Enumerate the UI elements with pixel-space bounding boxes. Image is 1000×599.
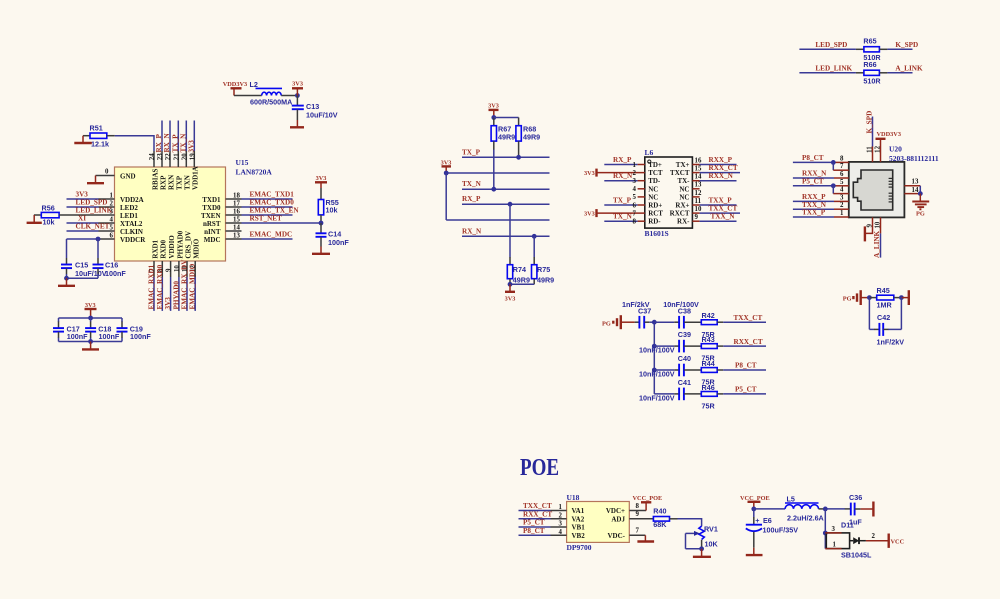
svg-text:CLK_NET: CLK_NET [76, 223, 110, 231]
wire L5 to C36 node [819, 507, 851, 512]
pin numbers 7-12 rotated [149, 265, 197, 272]
svg-text:LED_SPD: LED_SPD [76, 199, 108, 207]
svg-text:B1601S: B1601S [645, 229, 669, 238]
svg-text:7: 7 [636, 528, 640, 535]
svg-text:+: + [755, 516, 759, 525]
wire pin17 EMAC_TXD0 [226, 199, 295, 208]
svg-text:12: 12 [695, 190, 702, 197]
svg-text:PG: PG [602, 320, 611, 327]
svg-text:MDIO: MDIO [193, 238, 201, 258]
svg-text:LAN8720A: LAN8720A [236, 168, 273, 177]
svg-text:3: 3 [840, 194, 844, 201]
resistor R65 [799, 36, 912, 62]
svg-text:R66: R66 [863, 60, 876, 69]
wire pin13 EMAC_MDC [226, 231, 293, 240]
U20 pin 11 K_SPD [865, 111, 873, 162]
svg-text:RX+: RX+ [675, 202, 689, 210]
svg-text:12: 12 [875, 145, 882, 152]
svg-text:10: 10 [695, 206, 702, 213]
svg-text:XTAL2: XTAL2 [120, 220, 143, 228]
capacitor C36 1uF [849, 493, 862, 527]
U20 pin 8 P8_CT [793, 154, 849, 165]
svg-text:15: 15 [233, 217, 240, 224]
wire pin18 EMAC_TXD1 [226, 191, 295, 200]
wire R74/R75 bottom [508, 282, 535, 287]
svg-text:3V3: 3V3 [584, 170, 595, 177]
svg-text:nRST: nRST [203, 220, 221, 228]
svg-text:10uF/10V: 10uF/10V [306, 110, 338, 119]
svg-text:10nF/100V: 10nF/100V [639, 393, 675, 402]
svg-text:9: 9 [636, 511, 640, 518]
svg-text:U15: U15 [236, 158, 249, 167]
svg-text:1: 1 [110, 193, 114, 200]
svg-text:RD+: RD+ [648, 202, 662, 210]
svg-text:1nF/2kV: 1nF/2kV [877, 337, 905, 346]
wire TX_N line [462, 180, 550, 191]
U18 pin 1 TXX_CT [519, 502, 567, 511]
svg-text:LED_LINK: LED_LINK [76, 207, 113, 215]
svg-text:15: 15 [695, 166, 702, 173]
svg-text:R56: R56 [42, 204, 55, 213]
wires top pins 23-19 [162, 121, 194, 152]
inductor L5 2.2uH/2.6A [785, 495, 824, 523]
svg-text:RX_N: RX_N [163, 133, 171, 153]
node LED_SPD / K_SPD [815, 41, 918, 49]
pin 0 GND wire [96, 169, 136, 181]
L6 pin 1 TD+ / RX_P [604, 156, 662, 169]
svg-text:XI: XI [78, 215, 86, 223]
svg-text:D11: D11 [841, 521, 854, 530]
wire pin15 RST_NET [226, 215, 322, 224]
resistor R45 1MR [867, 286, 904, 309]
svg-text:14: 14 [233, 225, 240, 232]
svg-text:3: 3 [559, 521, 563, 528]
svg-text:RXD1: RXD1 [151, 239, 159, 258]
svg-text:7: 7 [840, 163, 844, 170]
resistor R66 [799, 60, 912, 86]
power port 3V3 left rail [441, 160, 452, 173]
svg-text:0: 0 [105, 169, 109, 176]
node EMAC_RXD1 etc rotated labels [148, 259, 197, 310]
svg-text:NC: NC [648, 193, 658, 201]
svg-text:TX_N: TX_N [180, 133, 188, 153]
wire C17/C18/C19 bottom rail [59, 339, 123, 344]
capacitor C38 10nF/100V [654, 300, 701, 329]
svg-text:EMAC_TX_EN: EMAC_TX_EN [250, 207, 300, 215]
svg-text:10K: 10K [705, 540, 719, 549]
U20 pin 3 RXX_P [793, 193, 849, 201]
svg-text:24: 24 [149, 153, 156, 160]
svg-text:P5_CT: P5_CT [523, 519, 545, 527]
svg-text:R51: R51 [90, 124, 103, 133]
capacitor C18 [85, 318, 120, 342]
svg-text:3V3: 3V3 [164, 297, 172, 310]
pin names left column [120, 196, 146, 244]
U18 pin 4 P8_CT [519, 527, 567, 536]
svg-text:RX_P: RX_P [155, 134, 163, 153]
svg-text:VA2: VA2 [572, 515, 585, 523]
svg-text:RXN: RXN [167, 175, 175, 190]
svg-text:P8_CT: P8_CT [802, 154, 824, 162]
svg-text:RX_N: RX_N [462, 227, 482, 235]
svg-text:12.1k: 12.1k [91, 139, 109, 148]
svg-text:14: 14 [695, 174, 702, 181]
svg-text:nINT: nINT [204, 228, 221, 236]
resistor R68 [494, 118, 540, 158]
pin stubs bottom of U15 [154, 261, 195, 277]
power port VDD3V3 [223, 81, 248, 96]
svg-text:TXCT: TXCT [670, 169, 690, 177]
transformer L6 B1601S body [645, 148, 693, 238]
svg-text:1: 1 [840, 210, 844, 217]
svg-text:4: 4 [559, 529, 563, 536]
U18 pin names [572, 507, 626, 540]
svg-text:R45: R45 [877, 286, 890, 295]
svg-text:NC: NC [679, 185, 689, 193]
svg-text:1: 1 [833, 542, 837, 549]
svg-text:9: 9 [166, 268, 173, 272]
resistor R42 75R [701, 311, 766, 339]
svg-text:6: 6 [110, 233, 114, 240]
svg-text:17: 17 [233, 201, 240, 208]
svg-text:TXX_P: TXX_P [709, 197, 733, 205]
svg-text:ADJ: ADJ [611, 515, 625, 523]
svg-text:PHYAD0: PHYAD0 [172, 281, 180, 310]
node RX_P / RX_N / TX_P / TX_N / 3V3 rotated labels [155, 133, 195, 153]
svg-text:100nF: 100nF [105, 269, 126, 278]
U20 pin 10 A_LINK [873, 217, 882, 258]
svg-text:R44: R44 [702, 359, 715, 368]
svg-text:68K: 68K [653, 520, 667, 529]
wire VCC_POE to L5 [754, 508, 785, 510]
svg-text:16: 16 [233, 209, 240, 216]
svg-text:LED_LINK: LED_LINK [815, 64, 852, 72]
power bar right of R45 [901, 290, 908, 305]
svg-text:4: 4 [840, 187, 844, 194]
svg-text:49R9: 49R9 [523, 132, 540, 141]
L6 pin 11 RX+ / TXX_P [675, 197, 736, 210]
svg-text:10k: 10k [43, 217, 55, 226]
wire L2 to C13 node [281, 93, 300, 98]
svg-text:2: 2 [840, 202, 844, 209]
svg-text:EMAC_TXD1: EMAC_TXD1 [250, 191, 295, 199]
svg-text:TX_N: TX_N [462, 180, 482, 188]
svg-text:C36: C36 [849, 493, 862, 502]
svg-text:TCT: TCT [648, 169, 663, 177]
svg-text:RCT: RCT [648, 210, 663, 218]
svg-text:MDC: MDC [204, 236, 221, 244]
U18 pin 9 ADJ / resistor R40 68K [629, 506, 701, 528]
L6 pin 5 NC [633, 193, 659, 201]
svg-text:RX_P: RX_P [462, 195, 481, 203]
svg-text:3: 3 [633, 178, 637, 185]
svg-text:RXX_N: RXX_N [802, 170, 827, 178]
svg-text:R74: R74 [513, 265, 526, 274]
op-amp U15 LAN8720A body [115, 158, 273, 261]
svg-text:4: 4 [110, 217, 114, 224]
svg-text:VA1: VA1 [572, 507, 585, 515]
svg-text:RXCT: RXCT [670, 210, 690, 218]
svg-text:RBIAS: RBIAS [151, 168, 159, 190]
svg-text:5: 5 [110, 225, 114, 232]
capacitor C19 [117, 318, 152, 342]
U20 pin 13 [904, 179, 920, 186]
U20 pin 1 TXX_P [793, 209, 849, 217]
L6 pin 9 RX- / TXX_N [677, 213, 736, 226]
U20 pin 6 RXX_N [793, 170, 849, 178]
ground PG earth below pins 13/14 [912, 194, 929, 218]
capacitor C41 10nF/100V [639, 378, 701, 402]
svg-text:4: 4 [633, 186, 637, 193]
svg-text:VB2: VB2 [572, 532, 586, 540]
pin names top row rotated [151, 166, 199, 190]
svg-text:R46: R46 [702, 383, 715, 392]
svg-text:6: 6 [633, 202, 637, 209]
svg-text:3V3: 3V3 [488, 102, 499, 109]
svg-text:R43: R43 [702, 335, 715, 344]
wire TX_P line [462, 148, 550, 159]
ground below C18 [82, 342, 99, 350]
svg-text:A_LINK: A_LINK [895, 64, 923, 72]
L6 pin 6 RD+ / TX_P [604, 197, 662, 210]
svg-text:NC: NC [679, 193, 689, 201]
svg-text:C42: C42 [877, 313, 890, 322]
power port PG at R45 [843, 290, 870, 305]
wire pin3 LED_LINK label [76, 207, 114, 216]
svg-text:R42: R42 [702, 311, 715, 320]
svg-text:CRS_DV: CRS_DV [184, 231, 192, 259]
svg-text:11: 11 [695, 198, 702, 205]
svg-text:14: 14 [912, 187, 919, 194]
resistor R51 [83, 124, 115, 149]
power port VCC [866, 533, 905, 548]
wire pin1 3V3 [67, 191, 115, 200]
resistor R43 75R [701, 335, 766, 363]
svg-text:TXX_P: TXX_P [802, 209, 826, 217]
svg-text:RX_N: RX_N [613, 172, 633, 180]
wire vertical rail C37 node [652, 320, 657, 394]
svg-text:LED2: LED2 [120, 204, 138, 212]
svg-text:TX-: TX- [677, 177, 690, 185]
U20 pin 7 tied to pin 8 [833, 162, 849, 170]
svg-text:RXX_P: RXX_P [802, 193, 826, 201]
node LED_LINK / A_LINK [815, 64, 923, 72]
power port 3V3 below R74 [505, 284, 516, 302]
svg-text:8: 8 [633, 219, 637, 226]
svg-text:PG: PG [843, 296, 852, 303]
svg-text:16: 16 [695, 157, 702, 164]
svg-text:VDC-: VDC- [608, 532, 626, 540]
svg-text:C37: C37 [638, 306, 651, 315]
wire VDD3V3 to L2 [234, 95, 262, 97]
power port 3V3 above R67 [488, 102, 499, 120]
wire pin2 LED_SPD [67, 199, 115, 208]
svg-text:U18: U18 [567, 493, 580, 502]
svg-text:3V3: 3V3 [505, 296, 516, 303]
svg-text:8: 8 [840, 155, 844, 162]
svg-text:2: 2 [633, 170, 637, 177]
power port VCC_POE at E6 [740, 495, 770, 511]
svg-text:510R: 510R [863, 76, 881, 85]
svg-text:2: 2 [559, 512, 563, 519]
power port 3V3 above C18 [85, 302, 97, 318]
svg-text:DP9700: DP9700 [567, 543, 592, 552]
svg-text:TXX_CT: TXX_CT [523, 502, 552, 510]
L6 pin 14 TX- / RXX_N [677, 172, 736, 185]
svg-text:22: 22 [165, 153, 172, 160]
svg-text:K_SPD: K_SPD [865, 111, 873, 134]
resistor R46 75R [701, 383, 766, 411]
svg-text:3V3: 3V3 [292, 81, 303, 88]
svg-text:1: 1 [633, 162, 637, 169]
wire pin6 VDDCR [67, 233, 115, 242]
wires bottom pins 7-12 [154, 277, 195, 311]
wire RX_N line [462, 227, 550, 238]
ground below E6 [746, 548, 763, 555]
svg-text:100nF: 100nF [99, 332, 120, 341]
svg-text:A_LINK: A_LINK [873, 230, 881, 258]
U18 pin 7 VDC- to ground [629, 528, 654, 542]
svg-text:RXD0: RXD0 [160, 239, 168, 258]
svg-text:TXEN: TXEN [201, 212, 220, 220]
svg-text:RX_P: RX_P [613, 156, 632, 164]
svg-text:5203-881112111: 5203-881112111 [889, 154, 939, 163]
resistor R56 [34, 204, 115, 227]
svg-text:10: 10 [875, 221, 882, 228]
svg-text:C38: C38 [678, 306, 691, 315]
svg-text:100nF: 100nF [130, 332, 151, 341]
ground below C14 [312, 247, 330, 254]
svg-text:VDDIO: VDDIO [168, 235, 176, 259]
svg-text:C40: C40 [678, 354, 691, 363]
svg-text:11: 11 [867, 146, 874, 153]
svg-text:13: 13 [233, 233, 240, 240]
svg-text:TXX_CT: TXX_CT [709, 205, 738, 213]
pin numbers 24-19 rotated [149, 153, 196, 160]
U20 pin 4 tied to pin 5 [833, 186, 849, 194]
resistor R55 [318, 188, 338, 223]
svg-text:13: 13 [695, 182, 702, 189]
svg-text:LED1: LED1 [120, 212, 138, 220]
svg-text:TXP: TXP [176, 175, 184, 190]
svg-text:100nF: 100nF [328, 238, 349, 247]
svg-text:TX+: TX+ [676, 161, 690, 169]
U18 pin 2 RXX_CT [519, 510, 567, 519]
svg-text:PHYAD0: PHYAD0 [176, 230, 184, 258]
L6 pin 10 RXCT / TXX_CT [670, 205, 740, 218]
resistor R67 [491, 118, 515, 190]
svg-text:PG: PG [916, 210, 925, 217]
svg-text:VDD3V3: VDD3V3 [223, 81, 248, 88]
wire R51 to pin 24 [115, 136, 154, 151]
svg-text:EMAC_RXD0: EMAC_RXD0 [156, 264, 164, 309]
svg-text:2: 2 [872, 533, 876, 540]
svg-text:POE: POE [520, 455, 559, 481]
inductor L2 600R/500MA [250, 80, 293, 107]
U20 pin 14 [904, 186, 922, 196]
wire pin14 stub [226, 225, 242, 232]
svg-text:RXX_CT: RXX_CT [734, 338, 763, 346]
svg-text:9: 9 [695, 214, 699, 221]
svg-text:1: 1 [559, 504, 563, 511]
capacitor C16 [93, 239, 127, 278]
power port PG at C37 [602, 315, 635, 329]
svg-text:7: 7 [633, 210, 637, 217]
svg-text:10nF/100V: 10nF/100V [639, 370, 675, 379]
svg-text:RXP: RXP [159, 175, 167, 190]
svg-text:NC: NC [648, 185, 658, 193]
svg-text:600R/500MA: 600R/500MA [250, 98, 292, 107]
svg-text:23: 23 [157, 153, 164, 160]
wire RX_P line [462, 195, 550, 206]
L6 pin 7 RCT 3V3 [584, 209, 663, 218]
svg-text:L6: L6 [645, 148, 654, 157]
U18 pin 8 VDC+ / VCC_POE [629, 495, 662, 511]
svg-text:3V3: 3V3 [85, 302, 96, 309]
svg-text:8: 8 [636, 503, 640, 510]
svg-text:19: 19 [189, 153, 196, 160]
L6 pin 2 TCT 3V3 [584, 169, 663, 178]
svg-text:K_SPD: K_SPD [895, 41, 918, 49]
svg-text:RXX_CT: RXX_CT [523, 510, 552, 518]
svg-text:5: 5 [840, 179, 844, 186]
svg-text:P8_CT: P8_CT [735, 362, 757, 370]
svg-text:3V3: 3V3 [76, 191, 89, 199]
svg-text:EMAC_MDC: EMAC_MDC [250, 231, 293, 239]
svg-text:RV1: RV1 [704, 524, 718, 533]
U20 pin 9 to power bar [865, 217, 874, 241]
svg-text:3: 3 [110, 209, 114, 216]
power port 3V3 at C13 [292, 81, 303, 96]
svg-text:VDDCR: VDDCR [120, 236, 146, 244]
L6 pin 13 NC [679, 182, 702, 194]
svg-text:6: 6 [840, 171, 844, 178]
wire C15/C16 bottom rail [64, 276, 98, 281]
pin stubs top of U15 [154, 151, 194, 167]
wire pin5 CLK_NET [67, 223, 115, 232]
svg-text:VDC+: VDC+ [606, 507, 625, 515]
capacitor C13 [292, 96, 338, 121]
svg-text:TX_P: TX_P [172, 134, 180, 153]
svg-text:5: 5 [633, 194, 637, 201]
resistor R75 [532, 236, 555, 284]
svg-text:VDD3V3: VDD3V3 [877, 131, 902, 138]
L6 pin 8 RD- / TX_N [604, 213, 661, 226]
svg-text:10uF/10V: 10uF/10V [75, 269, 107, 278]
svg-text:9: 9 [867, 224, 874, 228]
power port 3V3 above R55 [315, 175, 327, 188]
L6 pin 4 NC [633, 185, 659, 193]
L6 pin 3 TD- / RX_N [604, 172, 661, 185]
svg-text:TD-: TD- [648, 177, 661, 185]
wire pin4 XI [67, 215, 115, 224]
svg-text:RST_NET: RST_NET [250, 215, 283, 223]
svg-text:VDD1A: VDD1A [192, 166, 200, 190]
svg-text:10nF/100V: 10nF/100V [639, 346, 675, 355]
svg-text:RD-: RD- [648, 218, 661, 226]
node RST_NET junction [319, 221, 324, 226]
svg-text:TX_N: TX_N [613, 213, 633, 221]
capacitor C37 1nF/2kV [622, 300, 654, 329]
L6 pin 16 TX+ / RXX_P [676, 156, 737, 169]
connector U20 5203-881112111 body [849, 145, 939, 218]
svg-text:TXX_CT: TXX_CT [734, 314, 763, 322]
svg-text:3V3: 3V3 [188, 140, 196, 153]
svg-text:EMAC_RXD1: EMAC_RXD1 [148, 264, 156, 309]
capacitor C17 [53, 318, 88, 342]
svg-text:P5_CT: P5_CT [802, 177, 824, 185]
svg-text:TD+: TD+ [648, 161, 662, 169]
